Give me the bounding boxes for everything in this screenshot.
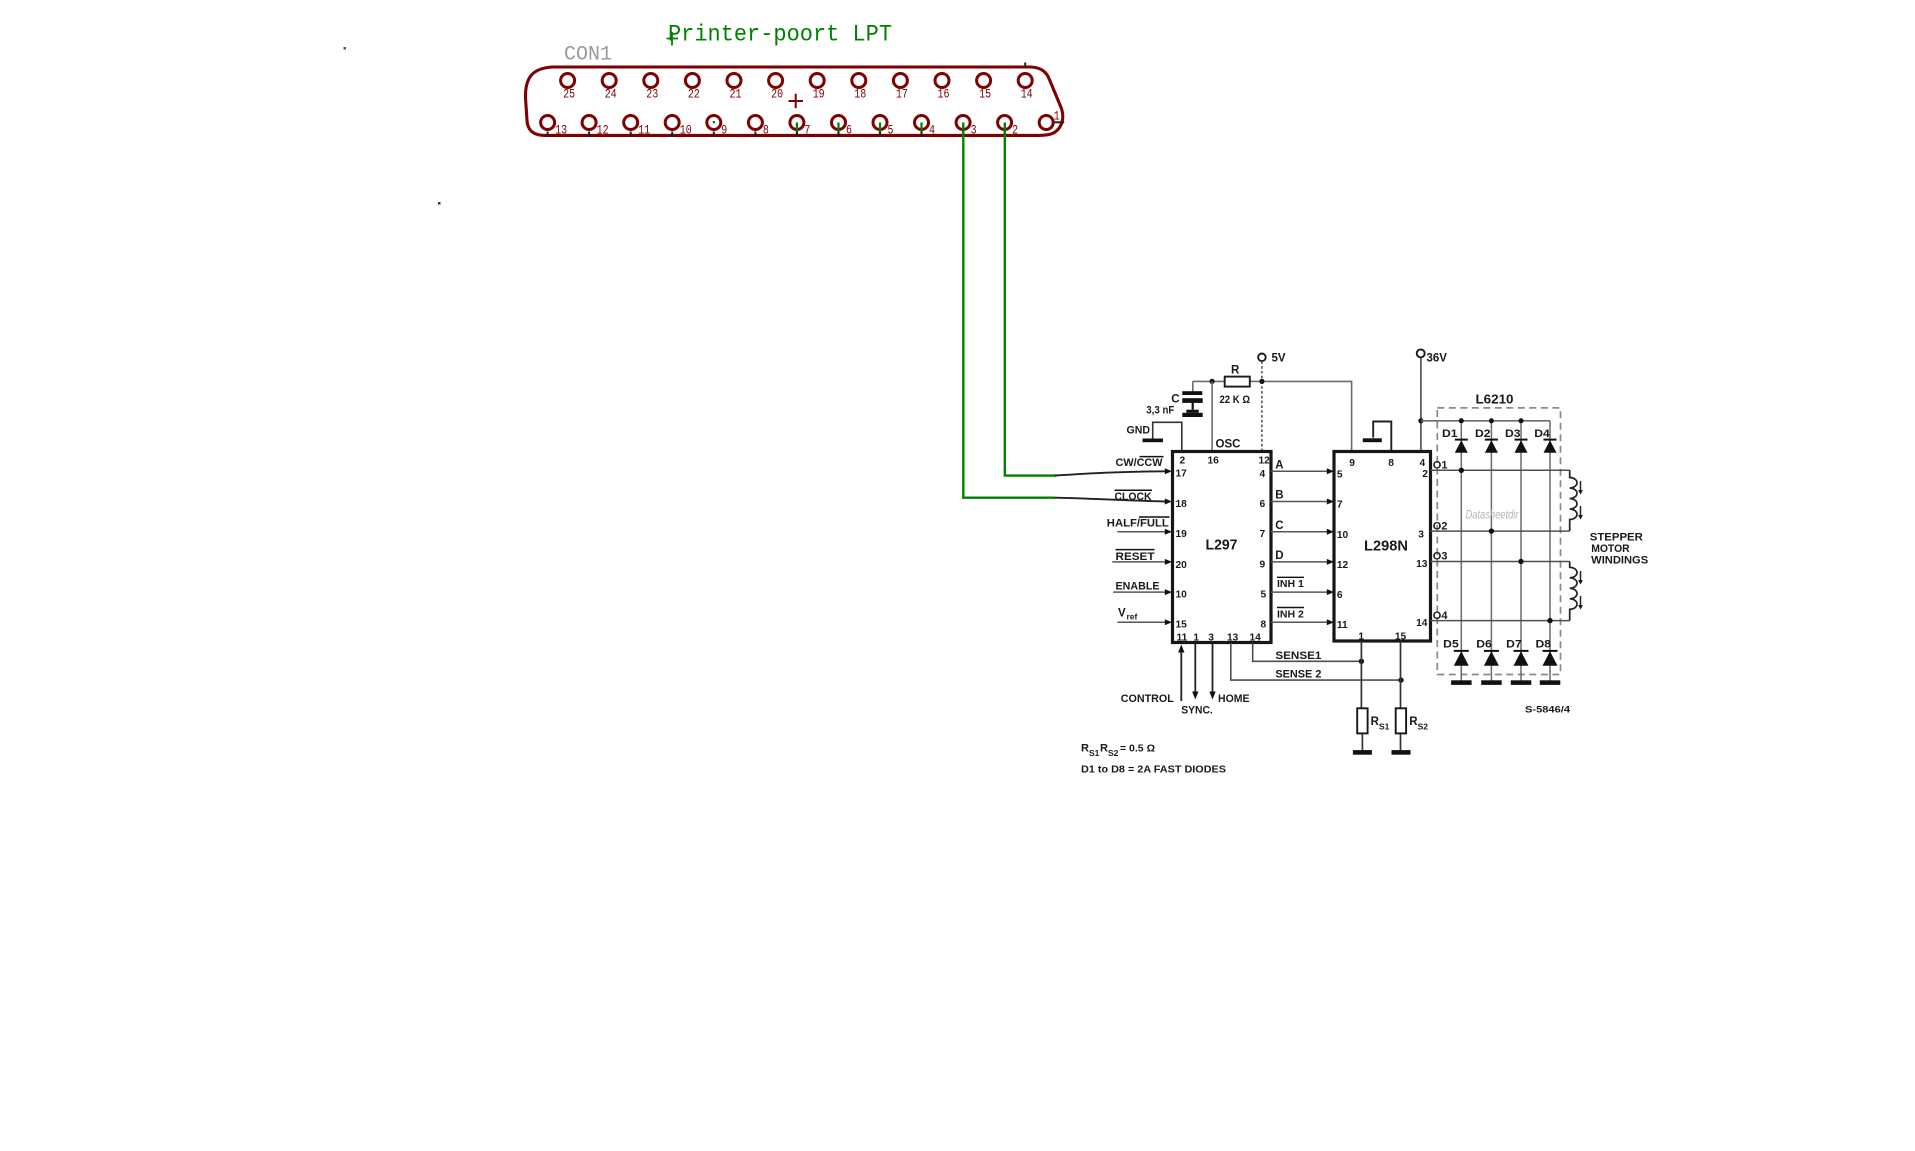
svg-text:O4: O4 [1433, 610, 1449, 622]
svg-text:25: 25 [563, 88, 575, 102]
svg-text:19: 19 [1176, 529, 1188, 540]
svg-text:D3: D3 [1505, 428, 1521, 440]
wire INH2 L297 to L298N [1271, 608, 1334, 626]
pin 8 [748, 116, 769, 138]
diode D8 [1536, 639, 1561, 685]
wire phase D L297 to L298N [1271, 550, 1334, 565]
svg-text:L6210: L6210 [1476, 393, 1514, 407]
svg-text:10: 10 [680, 124, 692, 138]
connector center cross + [789, 94, 804, 109]
svg-text:INH 2: INH 2 [1277, 608, 1304, 620]
pin 25 [561, 74, 576, 102]
svg-text:RESET: RESET [1116, 551, 1155, 563]
svg-text:B: B [1275, 490, 1283, 502]
svg-text:14: 14 [1416, 618, 1428, 629]
svg-text:22 K Ω: 22 K Ω [1220, 394, 1251, 406]
wire pin16 vertical [1211, 381, 1213, 451]
winding 2 arrows [1578, 571, 1583, 610]
wire output O2 [1431, 520, 1570, 534]
wire CW/CCW into pin 17 [1055, 468, 1173, 475]
pin 10 [665, 116, 692, 138]
svg-text:21: 21 [730, 88, 742, 102]
svg-text:4: 4 [1420, 458, 1426, 469]
svg-text:8: 8 [1261, 620, 1267, 631]
stepper winding 2 [1570, 562, 1577, 621]
wire phase A L297 to L298N [1271, 460, 1334, 475]
pin 4 [915, 116, 936, 138]
svg-text:7: 7 [1260, 529, 1266, 540]
svg-text:C: C [1275, 520, 1283, 532]
svg-text:12: 12 [1259, 456, 1271, 467]
svg-text:S1: S1 [1089, 748, 1100, 758]
wire diode column 1 [1460, 421, 1462, 681]
speck green [344, 47, 347, 50]
svg-text:D8: D8 [1536, 639, 1552, 651]
resistor RS1 [1353, 641, 1390, 755]
svg-text:13: 13 [555, 124, 567, 138]
svg-text:D5: D5 [1443, 639, 1459, 651]
svg-text:L298N: L298N [1364, 539, 1408, 555]
svg-text:CON1: CON1 [564, 44, 612, 67]
svg-text:20: 20 [771, 88, 783, 102]
pin 2 [998, 116, 1019, 138]
wire SYNC pin 1 [1181, 643, 1213, 717]
wire 5V rail horizontal [1193, 381, 1352, 451]
wire HOME pin 3 [1209, 643, 1249, 705]
svg-text:15: 15 [1395, 632, 1407, 643]
pin 24 [602, 74, 617, 102]
svg-text:18: 18 [1176, 499, 1188, 510]
svg-text:11: 11 [1337, 620, 1348, 631]
svg-text:D: D [1275, 550, 1283, 562]
note resistor values [1081, 743, 1155, 759]
op-amp U1 L297 box [1173, 452, 1272, 643]
wire diode column 2 [1490, 421, 1492, 681]
svg-text:14: 14 [1021, 88, 1033, 102]
pin 15 [977, 74, 992, 102]
svg-text:17: 17 [1176, 469, 1188, 480]
diode D5 [1443, 639, 1471, 685]
svg-text:3,3 nF: 3,3 nF [1146, 405, 1174, 417]
wire output O4 [1431, 610, 1570, 624]
diode D2 [1475, 428, 1498, 453]
svg-text:18: 18 [854, 88, 866, 102]
pin 23 [644, 74, 659, 102]
svg-text:5V: 5V [1272, 353, 1286, 365]
wire phase B L297 to L298N [1271, 490, 1334, 505]
svg-text:L297: L297 [1206, 538, 1238, 554]
svg-text:8: 8 [763, 124, 769, 138]
svg-text:D6: D6 [1476, 639, 1492, 651]
wire INH1 L297 to L298N [1271, 577, 1334, 595]
svg-text:13: 13 [1227, 633, 1239, 644]
pin 20 [769, 74, 784, 102]
svg-text:D7: D7 [1506, 639, 1522, 651]
wire phase C L297 to L298N [1271, 520, 1334, 535]
svg-text:4: 4 [1260, 469, 1266, 480]
svg-text:9: 9 [1260, 560, 1266, 571]
svg-text:11: 11 [1177, 633, 1188, 644]
svg-text:GND: GND [1127, 425, 1151, 437]
node rail junctions [1459, 418, 1524, 423]
pin 7 [790, 116, 811, 138]
wire 5V vertical dashed [1261, 361, 1263, 451]
pin 17 [893, 74, 908, 102]
node junction at 5V [1259, 379, 1264, 384]
wire CLOCK into pin 18 [1055, 498, 1173, 505]
pin 3 [956, 116, 977, 138]
svg-text:D4: D4 [1534, 428, 1550, 440]
svg-text:MOTOR: MOTOR [1591, 543, 1630, 555]
svg-text:= 0.5 Ω: = 0.5 Ω [1120, 743, 1155, 755]
wire HALF/FULL into L297 [1118, 529, 1173, 535]
pin 9 [707, 116, 728, 138]
label ENABLE [1116, 580, 1160, 592]
label RESET [1116, 550, 1155, 563]
svg-text:15: 15 [1176, 620, 1188, 631]
wire 36V to pin 4 [1420, 358, 1422, 452]
wire ENABLE into L297 [1113, 589, 1172, 595]
title origin cross [667, 32, 679, 46]
svg-text:7: 7 [804, 124, 810, 138]
svg-text:V: V [1118, 608, 1126, 620]
wire output O3 [1431, 551, 1570, 565]
svg-text:4: 4 [929, 124, 935, 138]
svg-text:CW/CCW: CW/CCW [1116, 457, 1164, 469]
svg-text:6: 6 [846, 124, 852, 138]
svg-text:12: 12 [597, 124, 609, 138]
svg-text:6: 6 [1260, 499, 1266, 510]
svg-text:2: 2 [1422, 469, 1428, 480]
pin 22 [685, 74, 700, 102]
svg-text:5: 5 [1337, 470, 1343, 481]
ground GND bar [1143, 439, 1164, 443]
svg-text:3: 3 [1208, 633, 1214, 644]
svg-text:SENSE1: SENSE1 [1275, 650, 1321, 662]
svg-text:O1: O1 [1433, 460, 1448, 472]
svg-text:16: 16 [938, 88, 950, 102]
svg-text:36V: 36V [1427, 353, 1448, 365]
wire output O1 [1431, 460, 1570, 473]
pin 16 [935, 74, 950, 102]
wire from pin 3 to CLOCK (green) [963, 123, 1054, 498]
label stepper motor windings [1590, 532, 1648, 567]
svg-text:7: 7 [1337, 500, 1343, 511]
diode D7 [1506, 639, 1531, 685]
svg-text:D1: D1 [1442, 428, 1458, 440]
svg-text:INH 1: INH 1 [1277, 578, 1304, 590]
svg-text:O2: O2 [1433, 520, 1448, 532]
svg-text:3: 3 [971, 124, 977, 138]
svg-text:S-5846/4: S-5846/4 [1525, 705, 1570, 715]
svg-text:WINDINGS: WINDINGS [1591, 554, 1648, 566]
connector CON1 DB25 outline [525, 67, 1062, 135]
36V supply terminal [1417, 349, 1448, 364]
svg-text:D1 to D8 = 2A FAST DIODES: D1 to D8 = 2A FAST DIODES [1081, 764, 1226, 776]
pin 21 [727, 74, 742, 102]
label HALF/FULL [1107, 517, 1170, 530]
wire diode column 4 [1549, 421, 1551, 681]
wire diode column 3 [1520, 421, 1522, 681]
label CW/CCW [1116, 457, 1164, 469]
svg-text:11: 11 [638, 124, 650, 138]
transistor U2 L298N box [1334, 452, 1431, 642]
svg-text:22: 22 [688, 88, 700, 102]
node junction 36V rail [1418, 418, 1423, 423]
pin 1 [1039, 110, 1064, 130]
resistor RS2 [1392, 641, 1429, 755]
svg-text:A: A [1275, 460, 1283, 472]
svg-text:9: 9 [1349, 458, 1355, 469]
svg-text:1: 1 [1358, 632, 1364, 643]
svg-text:3: 3 [1418, 530, 1424, 541]
svg-text:20: 20 [1176, 560, 1188, 571]
svg-text:HOME: HOME [1218, 693, 1250, 705]
svg-text:8: 8 [1388, 458, 1394, 469]
svg-text:S2: S2 [1108, 748, 1119, 758]
node junction at C top [1210, 379, 1215, 384]
label CLOCK [1115, 490, 1153, 503]
L297 pin numbers [1176, 456, 1271, 644]
wire GND to pin 2 [1153, 422, 1182, 451]
svg-text:D2: D2 [1475, 428, 1491, 440]
wire RESET into L297 [1112, 559, 1172, 565]
pin 19 [810, 74, 825, 102]
capacitor C 3.3nF [1146, 391, 1202, 417]
winding 1 arrows [1578, 481, 1583, 520]
wire SENSE1 [1253, 643, 1364, 664]
svg-text:19: 19 [813, 88, 825, 102]
svg-text:R: R [1231, 365, 1240, 377]
svg-text:2: 2 [1180, 456, 1186, 467]
svg-text:14: 14 [1250, 633, 1262, 644]
pin 5 [873, 116, 894, 138]
5V supply terminal [1258, 353, 1286, 365]
svg-text:16: 16 [1208, 456, 1220, 467]
svg-text:SYNC.: SYNC. [1181, 705, 1213, 717]
wire CONTROL pin 11 [1121, 645, 1185, 705]
svg-text:R: R [1100, 743, 1108, 755]
svg-text:R: R [1081, 743, 1089, 755]
svg-text:10: 10 [1176, 590, 1188, 601]
diode D6 [1476, 639, 1501, 685]
svg-text:13: 13 [1416, 559, 1428, 570]
svg-text:24: 24 [605, 88, 617, 102]
svg-text:O3: O3 [1433, 551, 1448, 563]
label Vref [1118, 608, 1138, 622]
svg-text:Datasheetdir: Datasheetdir [1466, 510, 1520, 522]
svg-text:Printer-poort LPT: Printer-poort LPT [668, 22, 892, 48]
diode D4 [1534, 428, 1556, 453]
svg-text:SENSE 2: SENSE 2 [1275, 669, 1321, 681]
diode D3 [1505, 428, 1528, 453]
wire SENSE2 [1231, 643, 1404, 683]
svg-text:15: 15 [979, 88, 991, 102]
svg-text:23: 23 [646, 88, 658, 102]
svg-text:5: 5 [1261, 590, 1267, 601]
svg-text:CONTROL: CONTROL [1121, 693, 1174, 705]
pin 12 [582, 116, 609, 138]
stepper winding 1 [1570, 470, 1577, 531]
L298N pin numbers [1337, 458, 1428, 643]
svg-text:2: 2 [1012, 124, 1018, 138]
speck black [438, 202, 441, 205]
pin 11 [624, 116, 651, 138]
svg-text:6: 6 [1337, 590, 1343, 601]
wire from pin 2 to CW/CCW (green) [1005, 123, 1057, 476]
diode D1 [1442, 428, 1468, 453]
svg-text:5: 5 [888, 124, 894, 138]
wire Vref into L297 [1118, 619, 1173, 625]
resistor R 22K [1220, 365, 1251, 407]
wire C top [1192, 381, 1194, 391]
pin 6 [832, 116, 853, 138]
svg-text:OSC: OSC [1216, 439, 1241, 451]
svg-text:HALF/FULL: HALF/FULL [1107, 518, 1169, 530]
L6210 dashed box [1437, 408, 1560, 675]
svg-text:17: 17 [896, 88, 908, 102]
svg-text:ref: ref [1127, 612, 1138, 622]
svg-text:S1: S1 [1379, 722, 1390, 732]
ground hook at pin 8 [1363, 422, 1392, 452]
svg-text:10: 10 [1337, 530, 1349, 541]
pin 14 [1018, 63, 1033, 102]
svg-text:12: 12 [1337, 560, 1349, 571]
svg-text:ENABLE: ENABLE [1116, 580, 1160, 592]
svg-text:9: 9 [721, 124, 727, 138]
pin 13 [541, 116, 568, 138]
pin 18 [852, 74, 867, 102]
svg-text:1: 1 [1193, 633, 1199, 644]
svg-text:STEPPER: STEPPER [1590, 532, 1643, 544]
wire top rail into L6210 [1421, 420, 1550, 422]
svg-text:S2: S2 [1418, 722, 1429, 732]
